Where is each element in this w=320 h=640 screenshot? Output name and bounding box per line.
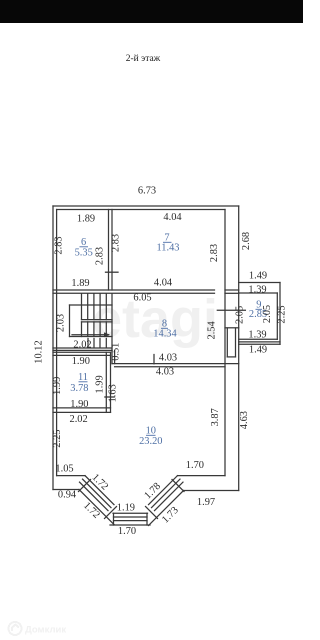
svg-text:10.12: 10.12 <box>34 340 45 363</box>
bay left window middle line 1 <box>83 479 112 508</box>
svg-text:4.04: 4.04 <box>163 212 182 223</box>
right wall band crossing line <box>225 327 239 329</box>
wall A lower line <box>53 292 215 294</box>
svg-text:2.03: 2.03 <box>56 314 67 332</box>
right wall outer line <box>238 206 240 491</box>
top wall inner <box>57 209 225 211</box>
bay right window middle line 2 <box>155 482 184 511</box>
room 11 bottom wall upper line <box>53 407 111 409</box>
left wall outer <box>52 206 54 490</box>
stair right edge <box>111 294 113 351</box>
svg-text:11.43: 11.43 <box>157 243 180 254</box>
svg-text:2.83: 2.83 <box>111 234 122 252</box>
room 11 bottom wall lower line <box>53 411 111 413</box>
bay left window inner diagonal <box>85 476 114 505</box>
svg-text:6.73: 6.73 <box>138 186 156 197</box>
room 9 top outer wall <box>239 282 280 284</box>
stair bottom line <box>70 336 113 338</box>
dimension tick 4.03 <box>153 355 155 364</box>
left wall inner <box>56 210 58 476</box>
svg-text:1.89: 1.89 <box>77 214 95 225</box>
svg-text:2.05: 2.05 <box>262 305 273 323</box>
svg-text:4.63: 4.63 <box>239 411 250 429</box>
svg-text:1.97: 1.97 <box>197 497 215 508</box>
bay center window middle line 1 <box>114 516 148 518</box>
wall stub 0.51 left line <box>111 350 113 363</box>
stair direction arrow <box>72 334 109 336</box>
svg-text:1.70: 1.70 <box>118 526 136 537</box>
right wall band tick to room 9 <box>217 309 245 311</box>
svg-text:1.39: 1.39 <box>248 285 266 296</box>
stair mid rail lower <box>82 321 113 323</box>
svg-text:2.68: 2.68 <box>241 232 252 250</box>
room 10 outer bottom left wall <box>53 489 79 491</box>
stair bottom wall upper line <box>53 347 112 349</box>
bay right window outer diagonal <box>149 491 184 526</box>
svg-text:2.83: 2.83 <box>95 247 106 265</box>
bay left window lower tick <box>105 507 117 519</box>
bay center window middle line 2 <box>114 520 148 522</box>
bay center window inner line <box>113 512 148 514</box>
svg-text:1.70: 1.70 <box>186 460 204 471</box>
bay center window right tick <box>146 513 148 525</box>
room 9 bottom wall mid line <box>239 341 280 343</box>
stair mid rail upper <box>82 319 113 321</box>
bay center window left tick <box>113 513 115 525</box>
room 11 right wall left line <box>105 352 107 412</box>
partition rooms 6/7 right line <box>111 210 113 291</box>
svg-text:1.19: 1.19 <box>117 503 135 514</box>
stair bottom wall lower line <box>53 349 112 351</box>
room 10 inner bottom right wall <box>178 475 226 477</box>
room 10 outer bottom right wall <box>184 490 239 492</box>
room 9 right outer wall <box>279 283 281 345</box>
shaft left line <box>226 328 228 357</box>
svg-text:2.02: 2.02 <box>73 340 91 351</box>
svg-text:2.54: 2.54 <box>206 321 217 340</box>
bay left window upper tick <box>79 480 91 492</box>
svg-text:1.39: 1.39 <box>248 330 266 341</box>
stair landing left edge <box>69 305 71 337</box>
svg-text:3.87: 3.87 <box>210 408 221 426</box>
right wall inner line <box>224 210 226 476</box>
svg-text:1.99: 1.99 <box>94 375 105 393</box>
svg-text:0.94: 0.94 <box>58 490 77 501</box>
top black bar <box>0 0 303 23</box>
svg-text:3.78: 3.78 <box>70 383 88 394</box>
stair landing top line <box>70 304 113 306</box>
room 9 bottom wall outer line <box>239 343 280 345</box>
svg-text:5.35: 5.35 <box>75 248 93 259</box>
svg-text:23.20: 23.20 <box>139 436 162 447</box>
bay left window middle line 2 <box>80 482 109 511</box>
svg-text:1.89: 1.89 <box>71 278 89 289</box>
room 11 top wall upper line <box>53 351 111 353</box>
room 9 top inner wall <box>239 292 278 294</box>
wall A crossing right wall band <box>225 289 239 291</box>
bay center window outer line <box>110 524 150 526</box>
partition rooms 6/7 left line <box>108 210 110 291</box>
watermark domclick icon <box>9 622 22 635</box>
door jamb tick room 11 <box>105 396 114 398</box>
svg-text:0.51: 0.51 <box>111 343 122 361</box>
svg-text:2.83: 2.83 <box>54 236 65 254</box>
wall A rooms 6,7 vs room 8 upper line <box>53 289 215 291</box>
bay left window outer diagonal <box>79 490 114 525</box>
shaft bottom line <box>227 356 235 358</box>
bay right window upper tick <box>172 480 184 492</box>
room 9 right inner wall <box>276 293 278 339</box>
svg-text:4.03: 4.03 <box>159 353 177 364</box>
svg-text:1.90: 1.90 <box>70 399 88 410</box>
svg-text:1.05: 1.05 <box>55 464 73 475</box>
wall stub 0.51 right line <box>114 350 116 363</box>
room 10 inner bottom left wall <box>57 475 85 477</box>
svg-text:14.34: 14.34 <box>153 329 177 340</box>
top wall outer <box>53 205 239 207</box>
room 11 top wall lower line <box>53 354 111 356</box>
svg-text:4.03: 4.03 <box>156 367 174 378</box>
wall room8/room10 upper line <box>112 363 239 365</box>
svg-text:1.49: 1.49 <box>249 271 267 282</box>
stair step verticals upper flight <box>81 294 83 320</box>
svg-text:1.63: 1.63 <box>108 384 119 402</box>
room 9 bottom inner wall <box>239 338 278 340</box>
door jamb tick in partition 6/7 <box>106 271 119 273</box>
stair step verticals lower flight <box>81 322 83 337</box>
bay right window inner diagonal <box>149 476 178 505</box>
svg-text:6.05: 6.05 <box>133 293 151 304</box>
bay right window middle line 1 <box>152 479 181 508</box>
stair lower continuation steps <box>87 339 89 348</box>
svg-text:2.02: 2.02 <box>70 414 88 425</box>
svg-text:2.05: 2.05 <box>234 306 245 324</box>
wall room8/room10 lower line <box>115 366 225 368</box>
svg-text:1.49: 1.49 <box>249 345 267 356</box>
svg-text:2.83: 2.83 <box>209 244 220 262</box>
svg-text:1.72: 1.72 <box>81 500 102 521</box>
svg-text:2.25: 2.25 <box>52 430 63 448</box>
svg-text:4.04: 4.04 <box>154 278 173 289</box>
svg-text:1.90: 1.90 <box>72 356 90 367</box>
svg-text:2.25: 2.25 <box>276 305 287 323</box>
svg-text:1.73: 1.73 <box>160 505 181 526</box>
bay right window lower tick <box>146 507 158 519</box>
svg-text:1.99: 1.99 <box>52 377 63 395</box>
room 11 right wall right line <box>110 352 112 412</box>
shaft right line <box>235 328 237 357</box>
